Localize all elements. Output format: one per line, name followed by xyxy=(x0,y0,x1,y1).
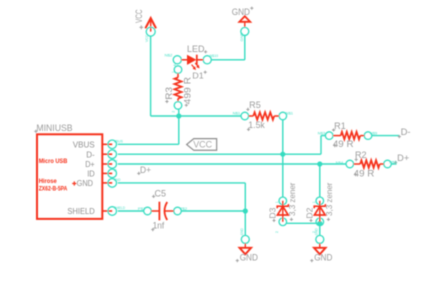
svg-text:1nf: 1nf xyxy=(153,221,165,231)
svg-text:GND: GND xyxy=(315,228,319,236)
svg-text:N$4: N$4 xyxy=(336,161,344,165)
svg-text:R1: R1 xyxy=(334,121,346,131)
svg-text:ID: ID xyxy=(87,169,95,179)
svg-text:GND: GND xyxy=(314,253,333,263)
svg-text:ID: ID xyxy=(114,168,118,172)
svg-text:Hirose: Hirose xyxy=(39,178,57,185)
svg-text:N$1: N$1 xyxy=(233,111,241,115)
svg-text:GND: GND xyxy=(114,178,121,182)
svg-text:D1: D1 xyxy=(192,70,204,80)
svg-text:VBUS: VBUS xyxy=(114,139,124,143)
svg-text:VCC: VCC xyxy=(134,9,144,23)
svg-text:VCC: VCC xyxy=(145,34,149,42)
svg-text:D2: D2 xyxy=(304,207,314,218)
svg-text:GND: GND xyxy=(240,32,244,42)
svg-text:N$3: N$3 xyxy=(318,131,326,135)
svg-text:N$10: N$10 xyxy=(210,54,219,58)
svg-text:1: 1 xyxy=(312,201,316,203)
svg-text:SHIELD: SHIELD xyxy=(114,206,126,210)
svg-text:C5: C5 xyxy=(155,189,167,199)
svg-text:D+: D+ xyxy=(397,153,409,163)
svg-text:R3: R3 xyxy=(164,87,174,100)
svg-text:499 R: 499 R xyxy=(183,76,193,104)
svg-text:D-: D- xyxy=(86,149,95,159)
svg-text:N$8: N$8 xyxy=(389,160,397,164)
svg-text:49 R: 49 R xyxy=(333,139,354,149)
svg-text:2: 2 xyxy=(275,231,279,233)
svg-text:1: 1 xyxy=(171,71,175,73)
svg-text:D+: D+ xyxy=(140,165,151,175)
svg-text:N$2: N$2 xyxy=(165,53,173,57)
svg-text:VCC: VCC xyxy=(193,140,212,150)
svg-text:D-: D- xyxy=(114,149,118,153)
svg-text:Micro USB: Micro USB xyxy=(39,158,68,165)
svg-text:N$9: N$9 xyxy=(370,131,378,135)
svg-text:P$1: P$1 xyxy=(138,207,146,211)
svg-text:D-: D- xyxy=(401,127,411,137)
svg-text:R2: R2 xyxy=(355,150,367,160)
svg-text:3,3 zener: 3,3 zener xyxy=(287,182,297,216)
svg-text:VBUS: VBUS xyxy=(73,140,95,150)
svg-text:MINIUSB: MINIUSB xyxy=(36,122,72,133)
svg-text:1.5k: 1.5k xyxy=(248,120,265,130)
svg-text:49 R: 49 R xyxy=(354,168,375,178)
svg-text:GND: GND xyxy=(240,253,259,263)
svg-text:GND: GND xyxy=(232,7,251,17)
svg-text:GND: GND xyxy=(240,228,244,236)
svg-text:R5: R5 xyxy=(249,100,261,110)
svg-text:SHIELD: SHIELD xyxy=(67,206,94,216)
svg-text:2: 2 xyxy=(171,111,175,113)
svg-text:GND: GND xyxy=(77,178,93,188)
svg-text:1: 1 xyxy=(275,201,279,203)
svg-text:N$1: N$1 xyxy=(286,111,294,115)
svg-text:ZX62-B-5PA: ZX62-B-5PA xyxy=(39,186,68,193)
svg-text:LED: LED xyxy=(187,44,205,54)
svg-text:D+: D+ xyxy=(114,159,118,163)
svg-text:P$2: P$2 xyxy=(180,207,188,211)
svg-text:D3: D3 xyxy=(267,207,277,218)
svg-text:3,3 zener: 3,3 zener xyxy=(324,182,334,216)
